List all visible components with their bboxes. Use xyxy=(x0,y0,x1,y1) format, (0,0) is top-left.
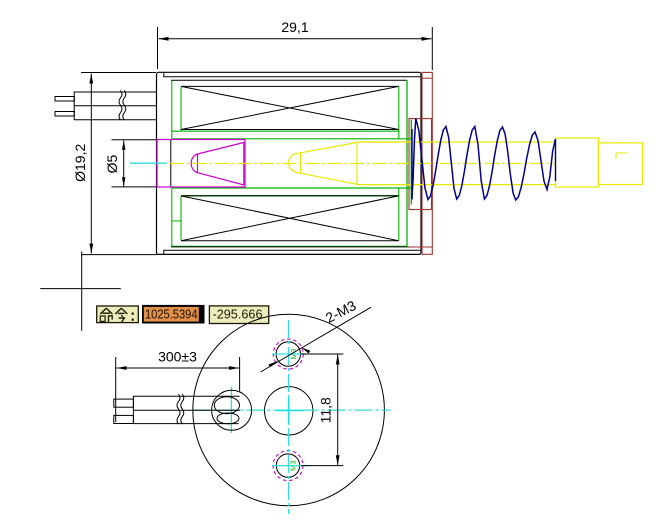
svg-text:300±3: 300±3 xyxy=(158,349,197,365)
dimension 29,1 line xyxy=(159,38,432,40)
lower coil winding with cross xyxy=(181,195,399,197)
coil right edge (green) xyxy=(398,86,400,138)
dimension Ø19,2 extension top xyxy=(81,72,156,74)
center hole crosshair (cyan) xyxy=(276,410,303,412)
case inner wall line bottom xyxy=(164,250,421,254)
dimension 11,8 line xyxy=(337,355,339,466)
dimension Ø5 extension bottom xyxy=(112,186,157,188)
red inner line top xyxy=(421,77,432,79)
pole piece cone (magenta) xyxy=(191,143,244,186)
plunger cone (yellow) xyxy=(301,143,358,185)
red inner line bottom xyxy=(409,246,433,248)
dimension Ø5 extension top xyxy=(112,139,157,141)
dimension Ø19,2 extension bottom xyxy=(81,254,157,256)
pole piece housing (magenta) xyxy=(157,140,245,188)
end view body circle xyxy=(193,314,385,506)
svg-text:11,8: 11,8 xyxy=(318,397,334,423)
plunger head (yellow) xyxy=(556,138,599,187)
dimension 29,1 extension line left xyxy=(157,27,159,69)
bobbin left flange (green) xyxy=(171,80,173,139)
vertical centerline (cyan) xyxy=(288,320,290,514)
horizontal centerline (cyan) xyxy=(193,409,391,411)
plunger shaft lines (yellow) xyxy=(357,141,556,143)
case inner wall line top xyxy=(164,72,421,77)
cable break symbol (end view) xyxy=(177,394,180,424)
end cap notch (yellow) xyxy=(616,153,628,159)
cable break symbol (top view) xyxy=(119,90,122,120)
top hole crosshair (cyan) xyxy=(272,353,306,355)
pole stop end line (green) xyxy=(410,120,412,205)
coordinate y box -295.666 xyxy=(209,306,268,324)
solenoid body outer case xyxy=(157,72,422,254)
command prompt box 命令: xyxy=(97,306,139,323)
bobbin bottom edge xyxy=(171,245,407,247)
bobbin right flange (green) xyxy=(406,80,408,247)
centerline (yellow dash-dot) xyxy=(170,162,556,164)
coil left edge (green) xyxy=(180,87,182,131)
case left wall inner edge xyxy=(170,139,172,187)
leader line 2-M3 xyxy=(261,307,372,372)
coil window bottom inner edge (green) xyxy=(181,195,399,197)
svg-text:-295.666: -295.666 xyxy=(213,307,263,322)
dimension 300±3 extension left xyxy=(115,357,117,422)
mounting hole top xyxy=(276,342,300,366)
terminal pin 1 (top view) xyxy=(55,97,74,102)
wire end upper lobe xyxy=(214,397,239,414)
bobbin wire slot rung (green) xyxy=(172,220,181,222)
svg-text:Ø5: Ø5 xyxy=(104,154,120,173)
center bore hole xyxy=(265,387,313,435)
wire grommet circle xyxy=(212,390,252,430)
dimension 11,8 extension bottom xyxy=(301,465,343,467)
mounting flange (red) xyxy=(422,72,432,254)
terminal pin 2 (end view) xyxy=(114,415,134,423)
plunger exit frame (red) xyxy=(409,119,432,210)
bottom hole crosshair (cyan) xyxy=(272,465,310,467)
plunger tip cap (yellow) xyxy=(288,153,300,173)
svg-text:29,1: 29,1 xyxy=(281,19,308,35)
dimension 29,1 extension line right xyxy=(431,27,433,70)
plunger end cap (yellow) xyxy=(598,143,642,185)
dimension Ø19,2 line xyxy=(90,74,92,254)
bore tube bottom line (green) xyxy=(172,187,411,189)
terminal pin 2 (top view) xyxy=(55,112,74,117)
return spring (navy) xyxy=(412,119,556,201)
mounting hole bottom xyxy=(276,454,299,477)
grommet crosshair (cyan) xyxy=(230,387,232,433)
bobbin top edge xyxy=(171,79,407,81)
dimension 11,8 extension top xyxy=(301,353,343,355)
wire end lower lobe xyxy=(217,413,239,424)
dimension 300±3 line xyxy=(117,367,240,369)
dimension 300±3 extension right xyxy=(239,357,241,391)
upper coil winding with cross xyxy=(181,85,399,87)
cable middle wire line xyxy=(74,105,157,107)
svg-text:Ø19,2: Ø19,2 xyxy=(72,144,88,182)
lead cable (top view) xyxy=(74,92,157,120)
dimension Ø5 line xyxy=(123,141,125,187)
bore tube top line (green) xyxy=(172,138,411,140)
terminal pin 1 (end view) xyxy=(114,399,134,407)
lead cable (end view) xyxy=(133,396,239,423)
CAD crosshair cursor xyxy=(81,252,83,331)
coordinate x box 1025.5394 xyxy=(142,305,205,324)
svg-text:1025.5394: 1025.5394 xyxy=(145,307,198,322)
coil window top inner edge (green) xyxy=(172,130,399,132)
centerline stub (cyan) xyxy=(130,162,167,164)
